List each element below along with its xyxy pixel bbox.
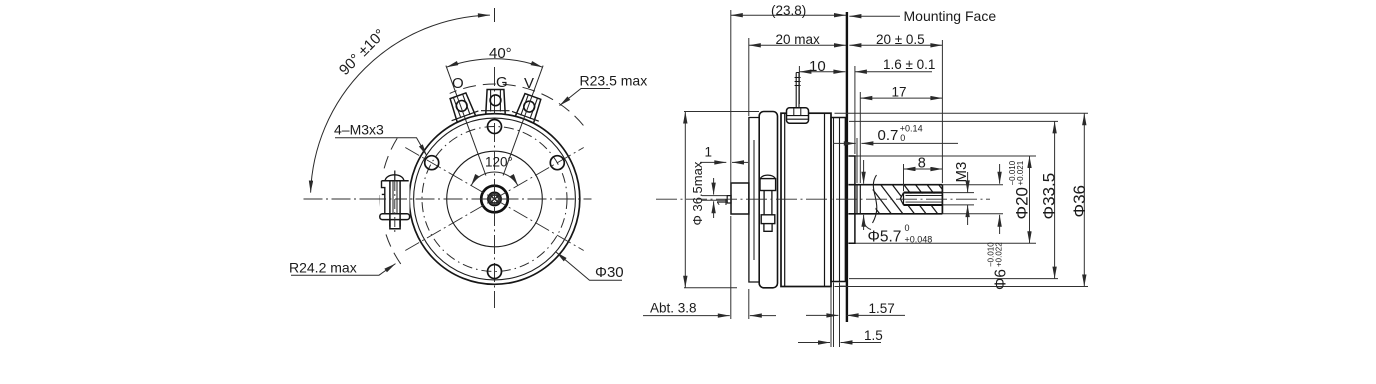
svg-text:0: 0 [900, 133, 905, 143]
svg-text:Φ33.5: Φ33.5 [1040, 173, 1059, 220]
90 deg arc top tick [494, 8, 496, 22]
cover screw shaft [764, 191, 772, 215]
plate bottom step [840, 285, 846, 287]
dim 1 top [700, 161, 726, 163]
svg-text:0.7: 0.7 [878, 127, 899, 144]
radial centerline 150-330 deg [405, 148, 583, 251]
svg-text:Mounting Face: Mounting Face [904, 8, 997, 24]
left bracket white mask [380, 175, 410, 229]
terminal tab O (left, at 110 deg) [444, 91, 479, 124]
svg-text:Φ36: Φ36 [1070, 185, 1089, 217]
centerline across bracket [374, 198, 413, 200]
cover screw head dome [760, 175, 775, 178]
M3 hole white interior [902, 194, 943, 204]
bolt hole top [488, 120, 502, 134]
dim 20 max [749, 44, 846, 46]
svg-text:(23.8): (23.8) [771, 3, 806, 18]
dim (23.8) [731, 14, 846, 16]
leader Phi30 [556, 252, 622, 280]
rim inner line [833, 118, 835, 282]
ext M3 [942, 193, 974, 205]
terminal pin [796, 73, 799, 108]
svg-text:Φ30: Φ30 [595, 264, 624, 281]
bracket screw shaft inner lines [393, 181, 397, 213]
swing radius dashed arc over bracket [380, 138, 402, 266]
body left inner line [784, 113, 786, 286]
svg-text:17: 17 [892, 85, 907, 100]
horizontal centerline [304, 198, 592, 200]
svg-text:1.5: 1.5 [864, 328, 883, 343]
ext line shaft end [941, 40, 943, 183]
inner rim circle [414, 118, 576, 280]
svg-text:R23.5 max: R23.5 max [580, 73, 648, 89]
vertical centerline [494, 67, 496, 308]
shaft end face [941, 185, 943, 214]
label 90 +-10 (rotated) [336, 26, 389, 79]
dim 8 [904, 168, 943, 170]
ext Phi6 [942, 185, 1003, 214]
ext below rear cover [748, 289, 750, 319]
gasket plate [749, 118, 759, 283]
motor body [781, 113, 831, 286]
dim 1.6 +-0.1 [855, 71, 932, 73]
DIMENSIONS RIGHT [643, 3, 1089, 347]
40 deg dimension arc [446, 59, 542, 67]
hub outer ring [481, 186, 508, 213]
gasket inner line [753, 140, 755, 260]
ext line rear tip [730, 10, 732, 194]
svg-text:40°: 40° [489, 45, 512, 62]
RIGHT VIEW (side section of motor) [656, 12, 990, 322]
bracket top plate [382, 180, 409, 182]
LEFT VIEW (front view of motor) [289, 8, 647, 308]
ext line boss face (1.6) [854, 66, 856, 154]
120 deg dimension arc [471, 172, 518, 186]
terminal pin thread ticks [795, 78, 801, 86]
mounting plate right edge [844, 118, 846, 282]
svg-text:Φ5.7: Φ5.7 [868, 229, 902, 246]
rear shaft tip [727, 196, 731, 203]
bracket screw slot [394, 171, 396, 182]
bracket bar [380, 214, 410, 220]
svg-text:+0.021: +0.021 [1016, 160, 1025, 185]
dim M3 [967, 172, 969, 192]
dim 0.7 arrows [833, 142, 856, 144]
front boss Phi20 [848, 156, 855, 243]
svg-text:8: 8 [918, 156, 926, 172]
ext lines below: rear boss [730, 216, 732, 319]
40 deg boundary line right (70 deg) [503, 66, 543, 176]
ext line rear cover left [748, 38, 750, 116]
terminal tab V (right, at 70 deg) [511, 91, 546, 124]
svg-text:20 ± 0.5: 20 ± 0.5 [876, 32, 925, 47]
bracket screw shaft [390, 181, 400, 226]
svg-text:0: 0 [905, 223, 910, 233]
dim 17 [860, 97, 942, 99]
svg-text:10: 10 [809, 58, 826, 75]
svg-text:R24.2 max: R24.2 max [289, 260, 357, 276]
terminal washer [787, 108, 809, 123]
svg-text:Φ6: Φ6 [993, 269, 1010, 290]
dim 1.5 [798, 342, 830, 344]
svg-text:1.6 ± 0.1: 1.6 ± 0.1 [883, 57, 935, 72]
plate left line [839, 118, 841, 282]
ext Phi33.5 [849, 121, 1058, 278]
terminal washer lines [787, 116, 809, 120]
svg-text:1.57: 1.57 [869, 301, 895, 316]
svg-text:Φ20: Φ20 [1013, 187, 1032, 219]
svg-text:+0.022: +0.022 [995, 242, 1004, 267]
ext line groove left (0.7) [856, 138, 858, 183]
inner boss circle [447, 151, 543, 247]
ext line groove right (17/0.7) [859, 92, 861, 183]
hub middle ring [488, 192, 501, 205]
bracket screw head dome [385, 175, 404, 181]
bolt hole upper-left [425, 156, 439, 170]
dim 10 [799, 71, 845, 73]
radial centerline 30-210 deg [405, 148, 583, 251]
svg-text:4–M3x3: 4–M3x3 [334, 122, 384, 138]
ext line hole start (8) [903, 164, 905, 191]
shaft groove (0.7 wide) [857, 185, 860, 214]
M3 thread lines [906, 196, 943, 203]
hub dark annulus [489, 194, 500, 205]
leader R23.5 max [560, 89, 611, 106]
bracket vertical centerline [394, 181, 396, 233]
main centerline [656, 198, 990, 200]
dim Phi20 [1029, 156, 1031, 243]
rear cover Phi36.5 [759, 112, 777, 288]
leader R24.2 max [291, 264, 396, 276]
svg-text:Φ 36.5max: Φ 36.5max [690, 161, 705, 225]
shaft hatching (sectioned) [845, 184, 962, 216]
cover screw tip [764, 224, 772, 232]
swing radius dashed arc R24.2 [450, 84, 584, 125]
shaft outline [848, 185, 942, 214]
90 deg arc with arrows [311, 15, 490, 193]
svg-text:20 max: 20 max [776, 32, 821, 47]
mounting face heavy line [846, 12, 848, 322]
svg-text:Abt. 3.8: Abt. 3.8 [650, 301, 697, 316]
hub cross X [490, 194, 500, 204]
dim 20 +-0.5 [849, 44, 942, 46]
dim Phi6 [999, 164, 1001, 184]
bolt circle (dashed, Phi30) [422, 127, 567, 272]
svg-text:O: O [452, 75, 464, 92]
rim and plate block [831, 118, 846, 282]
ext Phi20 [856, 156, 1037, 243]
leader Mounting Face [849, 15, 900, 17]
svg-text:M3: M3 [953, 162, 970, 183]
cover screw head [760, 179, 776, 191]
terminal washer slot [794, 108, 801, 115]
svg-text:G: G [496, 74, 508, 91]
dim 1 vertical [713, 178, 715, 195]
svg-text:120°: 120° [485, 155, 513, 170]
M3 tap hole outline [904, 193, 943, 205]
rear boss [731, 183, 749, 214]
ext below plate [839, 283, 841, 348]
bolt hole bottom [488, 265, 502, 279]
40 deg boundary line left (110 deg) [446, 66, 486, 176]
svg-text:V: V [524, 75, 534, 92]
ext Phi36 [835, 113, 1089, 286]
dim Phi33.5 [1054, 121, 1056, 278]
body seam line [824, 113, 826, 286]
bolt hole upper-right [550, 156, 564, 170]
bracket left profile with notch [382, 181, 385, 214]
outer body circle [409, 114, 580, 285]
dim Phi5.7 [863, 160, 865, 184]
dim Abt. 3.8 [643, 315, 730, 317]
dim Phi36 [1083, 113, 1085, 286]
ext line pin [798, 66, 800, 104]
dim 1.57 [806, 314, 838, 316]
cover screw nut [761, 215, 775, 224]
hub inner circle [491, 195, 499, 203]
svg-text:1: 1 [715, 198, 730, 206]
M3 hole drill cone [900, 193, 903, 205]
shaft break S-curve [873, 175, 877, 223]
terminal tab G (top) [481, 90, 510, 114]
svg-text:+0.048: +0.048 [905, 235, 933, 245]
ext below body end [831, 283, 834, 348]
leader 4-M3x3 [335, 138, 427, 156]
dim Phi36.5max [684, 112, 686, 288]
ext vert-1 [702, 196, 727, 201]
bracket screw tip [390, 220, 400, 229]
svg-text:1: 1 [705, 145, 713, 160]
ext Phi36.5max [684, 112, 759, 288]
